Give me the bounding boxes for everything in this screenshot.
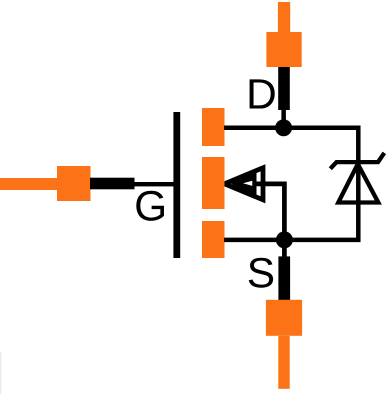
MOSFET Q1 body arrow outer triangle [224, 168, 263, 200]
MOSFET Q1 drain channel segment [202, 108, 225, 146]
node S junction dot [276, 231, 293, 248]
MOSFET Q1 gate bar [173, 112, 180, 258]
wire: body to source connection [255, 184, 284, 258]
label S [249, 258, 273, 288]
MOSFET Q1 body arrow inner filled head [231, 170, 257, 197]
window edge artifact [0, 352, 2, 394]
label D [250, 79, 275, 108]
wire: source orange lead to bottom [278, 336, 289, 389]
MOSFET Q1 source channel segment [202, 221, 225, 258]
MOSFET Q1 body channel segment [202, 157, 225, 209]
diode D1 zener cathode bar [330, 153, 384, 169]
wire: drain orange lead to top edge [278, 2, 290, 33]
node G pad [57, 166, 91, 201]
diode D1 anode triangle [338, 164, 378, 203]
wire: gate thick black stub [90, 178, 135, 190]
wire: gate thin lead to gate bar [134, 182, 175, 186]
node D junction dot [275, 119, 292, 136]
node S pad [266, 300, 302, 336]
label G [136, 191, 164, 221]
wire: drain vertical thin lead [281, 104, 286, 128]
wire: drain thick black stub [278, 66, 290, 110]
wire: gate net orange lead from left edge [0, 178, 58, 190]
wire: drain-source outer loop with zener branch [224, 128, 358, 240]
wire: source thick black stub [278, 256, 290, 300]
node D pad [266, 32, 301, 67]
